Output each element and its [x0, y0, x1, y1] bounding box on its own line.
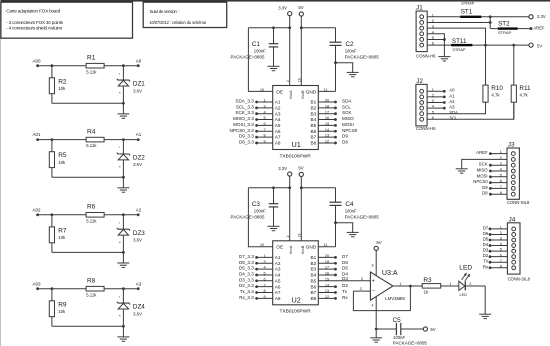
- svg-text:3.6V: 3.6V: [133, 88, 142, 93]
- svg-text:STRAP: STRAP: [452, 47, 466, 52]
- svg-text:1: 1: [263, 99, 265, 103]
- svg-text:B1: B1: [310, 255, 316, 260]
- svg-text:SCL_3.3: SCL_3.3: [236, 104, 254, 109]
- ground: [117, 326, 129, 341]
- svg-text:3.6V: 3.6V: [133, 311, 142, 316]
- wire: [52, 176, 125, 179]
- svg-text:VccA: VccA: [289, 90, 293, 99]
- wire 3.3V rail: [248, 26, 289, 29]
- svg-text:D4: D4: [483, 242, 489, 247]
- svg-text:2: 2: [469, 282, 471, 286]
- svg-text:A6: A6: [275, 284, 281, 289]
- svg-text:ST11: ST11: [452, 38, 467, 45]
- power 5V supply C5: [423, 327, 435, 332]
- svg-text:SDA: SDA: [449, 110, 458, 115]
- node Tx: [318, 289, 348, 294]
- capacitor C5: [376, 317, 427, 345]
- svg-text:100nF: 100nF: [254, 209, 266, 214]
- svg-text:D7_3.3: D7_3.3: [239, 254, 254, 259]
- svg-text:D7: D7: [342, 254, 348, 259]
- node D6: [318, 260, 348, 265]
- wire: [104, 213, 138, 216]
- node A0: [427, 88, 455, 93]
- svg-text:U3:A: U3:A: [382, 269, 398, 277]
- wire: [300, 177, 303, 241]
- wire: [38, 287, 87, 290]
- svg-text:Tx_3.3: Tx_3.3: [240, 289, 254, 294]
- node MISO_3.3: [233, 116, 273, 121]
- wire 3.3V net: [481, 15, 529, 18]
- svg-text:4: 4: [372, 304, 374, 308]
- svg-text:B3: B3: [310, 267, 316, 272]
- svg-text:A0: A0: [449, 88, 455, 93]
- node Rx: [318, 295, 348, 300]
- node MOSI: [318, 122, 353, 127]
- svg-text:20: 20: [325, 99, 329, 103]
- zener diode DZ2: [117, 140, 145, 178]
- svg-text:A3: A3: [275, 267, 281, 272]
- svg-text:4: 4: [263, 266, 265, 270]
- node D5_3.3: [239, 266, 273, 271]
- node Rx_3.3: [239, 295, 272, 300]
- svg-text:D5_3.3: D5_3.3: [239, 266, 254, 271]
- node MISO: [318, 116, 354, 121]
- svg-text:19: 19: [298, 234, 302, 238]
- node D3: [483, 248, 508, 253]
- svg-text:5.11k: 5.11k: [86, 292, 97, 297]
- svg-text:8: 8: [263, 134, 265, 138]
- node D7: [483, 225, 508, 230]
- svg-text:AREF: AREF: [533, 26, 545, 31]
- svg-text:NPCS0_3.3: NPCS0_3.3: [230, 128, 255, 133]
- capacitor C1: [231, 28, 279, 66]
- wire 5V rail: [301, 27, 335, 29]
- ground: [347, 232, 359, 236]
- svg-text:C4: C4: [345, 201, 354, 208]
- resistor R9: [49, 289, 67, 327]
- svg-text:A1: A1: [136, 132, 142, 137]
- node D8: [482, 191, 507, 196]
- wire SDA: [427, 102, 485, 115]
- node SCK: [318, 110, 352, 115]
- ic U1 TXB0108PWR body: [273, 86, 319, 150]
- ground: [268, 66, 280, 70]
- node D9_3.3: [239, 134, 273, 139]
- svg-text:PACKAGE=0805: PACKAGE=0805: [231, 55, 266, 60]
- svg-text:ST1: ST1: [461, 8, 473, 15]
- svg-text:TXB0108PWR: TXB0108PWR: [280, 309, 312, 315]
- svg-text:B5: B5: [310, 123, 316, 128]
- svg-text:DZ3: DZ3: [133, 230, 145, 237]
- wire: [489, 17, 492, 29]
- svg-text:TXB0108PWR: TXB0108PWR: [280, 153, 312, 159]
- resistor R1: [86, 55, 104, 75]
- svg-text:10/07/2012 : création du schém: 10/07/2012 : création du schéma: [149, 20, 206, 25]
- node A0: [136, 58, 142, 67]
- svg-text:A7: A7: [275, 135, 281, 140]
- svg-text:Suivi de version :: Suivi de version :: [150, 9, 179, 14]
- svg-text:10: 10: [260, 243, 264, 247]
- node MISO: [477, 168, 507, 173]
- svg-text:20: 20: [325, 254, 329, 258]
- svg-text:Tx: Tx: [483, 259, 489, 264]
- svg-text:NPCS0: NPCS0: [473, 179, 488, 184]
- svg-text:C3: C3: [252, 201, 261, 208]
- resistor R4: [86, 128, 104, 148]
- svg-text:A2: A2: [275, 105, 281, 110]
- power 5V terminal: [529, 43, 542, 48]
- svg-text:SCK: SCK: [342, 110, 352, 115]
- node A00: [32, 58, 41, 67]
- svg-text:8: 8: [372, 264, 374, 268]
- node D3: [318, 276, 370, 281]
- ground: [117, 252, 129, 267]
- wire OE tie: [248, 28, 272, 92]
- wire J1 pin5: [427, 38, 446, 41]
- svg-text:17: 17: [325, 266, 329, 270]
- wire: [372, 251, 377, 276]
- svg-text:D2_3.3: D2_3.3: [239, 283, 254, 288]
- svg-text:B5: B5: [310, 278, 316, 283]
- power 5V supply U1: [298, 5, 303, 16]
- resistor R3: [422, 277, 441, 295]
- svg-text:A0: A0: [136, 58, 142, 63]
- svg-text:U1: U1: [292, 140, 301, 149]
- resistor R6: [86, 204, 104, 224]
- svg-text:D9: D9: [342, 134, 348, 139]
- title block: carte adaptation: [1, 2, 133, 38]
- svg-text:VccB: VccB: [301, 90, 305, 99]
- svg-text:B4: B4: [310, 273, 316, 278]
- connector J1 CONN-H6: [416, 5, 436, 59]
- svg-text:CONN-SIL8: CONN-SIL8: [508, 277, 531, 282]
- svg-text:D3: D3: [342, 276, 348, 281]
- svg-text:3: 3: [263, 260, 265, 264]
- svg-text:MISO_3.3: MISO_3.3: [233, 116, 254, 121]
- svg-text:R5: R5: [58, 152, 67, 159]
- svg-text:18: 18: [325, 104, 329, 108]
- svg-text:D3_3.3: D3_3.3: [239, 277, 254, 282]
- capacitor C3: [231, 188, 279, 226]
- svg-text:R11: R11: [519, 85, 531, 92]
- title block: suivi de version: [143, 2, 227, 27]
- capacitor C2: [330, 28, 380, 92]
- svg-text:A7: A7: [275, 290, 281, 295]
- wire GND pin: [318, 246, 335, 248]
- svg-text:Rx: Rx: [342, 295, 348, 300]
- node A02: [32, 207, 41, 216]
- resistor R5: [49, 140, 67, 178]
- svg-text:5.11k: 5.11k: [86, 143, 97, 148]
- svg-text:A02: A02: [32, 207, 41, 212]
- svg-text:6: 6: [263, 122, 265, 126]
- node D5: [318, 266, 348, 271]
- svg-text:R3: R3: [423, 277, 432, 284]
- node op-amp ground junction: [375, 328, 378, 331]
- svg-text:OE: OE: [276, 89, 283, 94]
- node SCL_3.3: [236, 104, 273, 109]
- svg-text:D7: D7: [483, 225, 489, 230]
- svg-text:R4: R4: [87, 128, 96, 135]
- node D2_3.3: [239, 283, 273, 288]
- svg-text:15: 15: [325, 122, 329, 126]
- wire J1 pin4: [427, 34, 444, 40]
- svg-text:3.6V: 3.6V: [133, 162, 142, 167]
- node A3: [427, 105, 455, 110]
- ground: [347, 72, 359, 76]
- svg-text:D6_3.3: D6_3.3: [239, 260, 254, 265]
- svg-text:A1: A1: [275, 255, 281, 260]
- page top border: [0, 0, 550, 2]
- svg-text:100nF: 100nF: [393, 335, 405, 340]
- svg-text:11: 11: [324, 243, 328, 247]
- svg-text:D8_3.3: D8_3.3: [239, 139, 254, 144]
- resistor R10: [483, 45, 503, 114]
- svg-text:B2: B2: [310, 105, 316, 110]
- wire: [104, 64, 138, 67]
- svg-text:B6: B6: [310, 284, 316, 289]
- svg-text:A03: A03: [32, 281, 41, 286]
- wire J1 pin1: [427, 16, 460, 18]
- svg-text:A00: A00: [32, 58, 41, 63]
- svg-text:B6: B6: [310, 129, 316, 134]
- svg-text:A2: A2: [136, 207, 142, 212]
- svg-text:10k: 10k: [58, 235, 66, 240]
- svg-text:D2: D2: [342, 283, 348, 288]
- svg-text:5: 5: [263, 272, 265, 276]
- svg-text:B7: B7: [310, 290, 316, 295]
- svg-text:VccA: VccA: [289, 245, 293, 254]
- svg-text:VccB: VccB: [301, 245, 305, 254]
- label U1 pin numbers top: [260, 78, 328, 92]
- wire output: [393, 285, 422, 288]
- svg-text:15: 15: [325, 277, 329, 281]
- svg-text:B3: B3: [310, 111, 316, 116]
- svg-text:D3: D3: [483, 248, 489, 253]
- svg-text:9: 9: [263, 295, 265, 299]
- resistor R7: [49, 215, 67, 253]
- node A03: [32, 281, 41, 290]
- ground: [370, 329, 382, 342]
- svg-text:A3: A3: [449, 105, 455, 110]
- svg-text:10: 10: [260, 88, 264, 92]
- svg-text:16: 16: [325, 116, 329, 120]
- strap ST1: [460, 1, 481, 19]
- node A1: [136, 132, 142, 141]
- svg-text:Rx: Rx: [483, 264, 489, 269]
- svg-text:MISO: MISO: [342, 116, 354, 121]
- strap ST11: [451, 38, 472, 52]
- svg-text:R7: R7: [58, 227, 67, 234]
- svg-text:5: 5: [263, 116, 265, 120]
- node D7: [318, 254, 348, 259]
- svg-text:B4: B4: [310, 117, 316, 122]
- svg-text:−: −: [372, 289, 375, 295]
- svg-text:SCK: SCK: [479, 162, 488, 167]
- svg-text:MISO: MISO: [477, 168, 489, 173]
- node SDA: [318, 99, 352, 104]
- svg-text:B7: B7: [310, 135, 316, 140]
- svg-text:14: 14: [325, 283, 329, 287]
- svg-text:LMV358M: LMV358M: [385, 296, 405, 301]
- wire 5V rail: [301, 187, 335, 189]
- svg-text:Rx_3.3: Rx_3.3: [239, 295, 254, 300]
- node SDA_3.3: [235, 99, 272, 104]
- wire: [104, 138, 138, 141]
- svg-text:13: 13: [325, 289, 329, 293]
- node Tx_3.3: [240, 289, 273, 294]
- wire: [300, 16, 303, 85]
- capacitor C4: [330, 188, 380, 247]
- ground: [456, 169, 468, 173]
- svg-text:B2: B2: [310, 261, 316, 266]
- svg-text:17: 17: [325, 110, 329, 114]
- svg-text:1: 1: [449, 282, 451, 286]
- svg-text:A5: A5: [275, 278, 281, 283]
- wire J1 pin2: [427, 21, 490, 23]
- svg-text:A6: A6: [275, 129, 281, 134]
- node SCK: [479, 162, 507, 167]
- svg-text:STRAP: STRAP: [498, 30, 512, 35]
- ic U2 TXB0108PWR body: [273, 241, 319, 305]
- zener diode DZ3: [117, 215, 145, 253]
- svg-text:A4: A4: [275, 117, 281, 122]
- op-amp U3:A: [370, 269, 405, 301]
- svg-text:3.6V: 3.6V: [133, 237, 142, 242]
- svg-text:R6: R6: [87, 204, 96, 211]
- svg-text:MOSI_3.3: MOSI_3.3: [233, 122, 254, 127]
- svg-text:7: 7: [263, 283, 265, 287]
- label op-amp pin numbers: [360, 277, 402, 308]
- power 5V supply U2: [298, 165, 303, 176]
- svg-text:PACKAGE=0805: PACKAGE=0805: [393, 340, 428, 345]
- svg-text:A8: A8: [275, 141, 281, 146]
- svg-text:CONN-H6: CONN-H6: [416, 126, 436, 131]
- svg-text:R9: R9: [58, 301, 67, 308]
- node A3: [136, 281, 142, 290]
- resistor R8: [86, 278, 104, 298]
- svg-text:4: 4: [263, 110, 265, 114]
- svg-text:11: 11: [324, 88, 328, 92]
- node MOSI: [477, 173, 507, 178]
- node D4_3.3: [239, 271, 273, 276]
- node A2: [427, 99, 455, 104]
- label J2 pin numbers: [432, 88, 434, 120]
- svg-text:B8: B8: [310, 141, 316, 146]
- svg-text:R10: R10: [491, 85, 503, 92]
- label U2 pin numbers top: [260, 234, 328, 248]
- node A2: [136, 207, 142, 216]
- wire SCL: [427, 102, 514, 120]
- svg-text:8: 8: [263, 289, 265, 293]
- power 5V supply U3: [374, 240, 382, 250]
- node D6_3.3: [239, 260, 273, 265]
- label J1 pin numbers: [432, 13, 434, 45]
- zener diode DZ4: [117, 289, 145, 327]
- svg-text:- 2 connecteurs FOX 40 points: - 2 connecteurs FOX 40 points: [6, 20, 63, 25]
- node D9: [482, 185, 507, 190]
- svg-text:A4: A4: [275, 273, 281, 278]
- svg-text:PACKAGE=0805: PACKAGE=0805: [231, 215, 266, 220]
- wire: [336, 223, 353, 233]
- svg-text:3.3V: 3.3V: [278, 166, 287, 171]
- ground: [479, 314, 491, 318]
- label J4 pin numbers: [500, 226, 502, 269]
- svg-text:R2: R2: [58, 78, 67, 85]
- svg-text:5V: 5V: [376, 240, 381, 245]
- svg-text:A2: A2: [449, 99, 455, 104]
- page left border: [0, 0, 1, 346]
- svg-text:D4_3.3: D4_3.3: [239, 271, 254, 276]
- wire: [336, 63, 353, 73]
- wire: [52, 325, 125, 328]
- ground: [438, 39, 450, 61]
- svg-text:2: 2: [286, 80, 290, 82]
- svg-text:D5: D5: [483, 237, 489, 242]
- svg-text:3.3V: 3.3V: [537, 14, 546, 19]
- svg-text:C5: C5: [393, 317, 402, 324]
- wire: [465, 282, 485, 314]
- node Tx: [483, 259, 507, 264]
- svg-text:9: 9: [263, 140, 265, 144]
- wire V- to ground: [375, 296, 377, 329]
- node NPCS0: [318, 128, 357, 133]
- svg-text:STRAP: STRAP: [461, 1, 475, 6]
- svg-text:4.7k: 4.7k: [520, 93, 529, 98]
- svg-text:+: +: [372, 279, 375, 285]
- power 3.3V supply U2: [278, 166, 292, 176]
- svg-text:AREF: AREF: [476, 150, 488, 155]
- wire J3 pin2 to ground: [462, 159, 507, 168]
- connector J3 CONN-SIL8: [507, 142, 530, 206]
- svg-text:10k: 10k: [58, 309, 66, 314]
- zener diode DZ1: [117, 66, 145, 104]
- svg-text:MOSI: MOSI: [477, 173, 488, 178]
- ground: [268, 226, 280, 230]
- svg-text:D8: D8: [482, 191, 488, 196]
- node A01: [32, 132, 41, 141]
- node D2: [318, 283, 348, 288]
- node D4: [318, 271, 348, 276]
- svg-text:A1: A1: [275, 100, 281, 105]
- wire 3.3V rail: [248, 186, 289, 189]
- node D6: [483, 231, 508, 236]
- svg-text:B8: B8: [310, 296, 316, 301]
- svg-text:Tx: Tx: [342, 289, 348, 294]
- svg-text:12: 12: [325, 295, 329, 299]
- LED D1: [459, 264, 473, 297]
- svg-text:100nF: 100nF: [254, 49, 266, 54]
- svg-text:PACKAGE=0805: PACKAGE=0805: [345, 215, 380, 220]
- svg-text:- 4 connecteurs shield Arduino: - 4 connecteurs shield Arduino: [6, 25, 62, 30]
- svg-text:SCK_3.3: SCK_3.3: [235, 110, 254, 115]
- svg-text:10k: 10k: [58, 86, 66, 91]
- svg-text:SCL: SCL: [342, 104, 351, 109]
- strap ST2: [490, 21, 518, 35]
- svg-text:A1: A1: [449, 93, 455, 98]
- svg-text:6: 6: [263, 277, 265, 281]
- connector J2 CONN-H6: [416, 78, 436, 131]
- wire inverting input feedback: [353, 286, 410, 311]
- connector J4 CONN-SIL8: [507, 217, 530, 282]
- svg-text:ST2: ST2: [498, 21, 510, 28]
- label J3 pin numbers: [500, 150, 502, 195]
- svg-text:NPCS0: NPCS0: [342, 128, 358, 133]
- svg-text:CONN-H6: CONN-H6: [416, 53, 436, 58]
- svg-text:3: 3: [361, 277, 363, 281]
- node D8_3.3: [239, 139, 273, 144]
- wire: [38, 138, 87, 141]
